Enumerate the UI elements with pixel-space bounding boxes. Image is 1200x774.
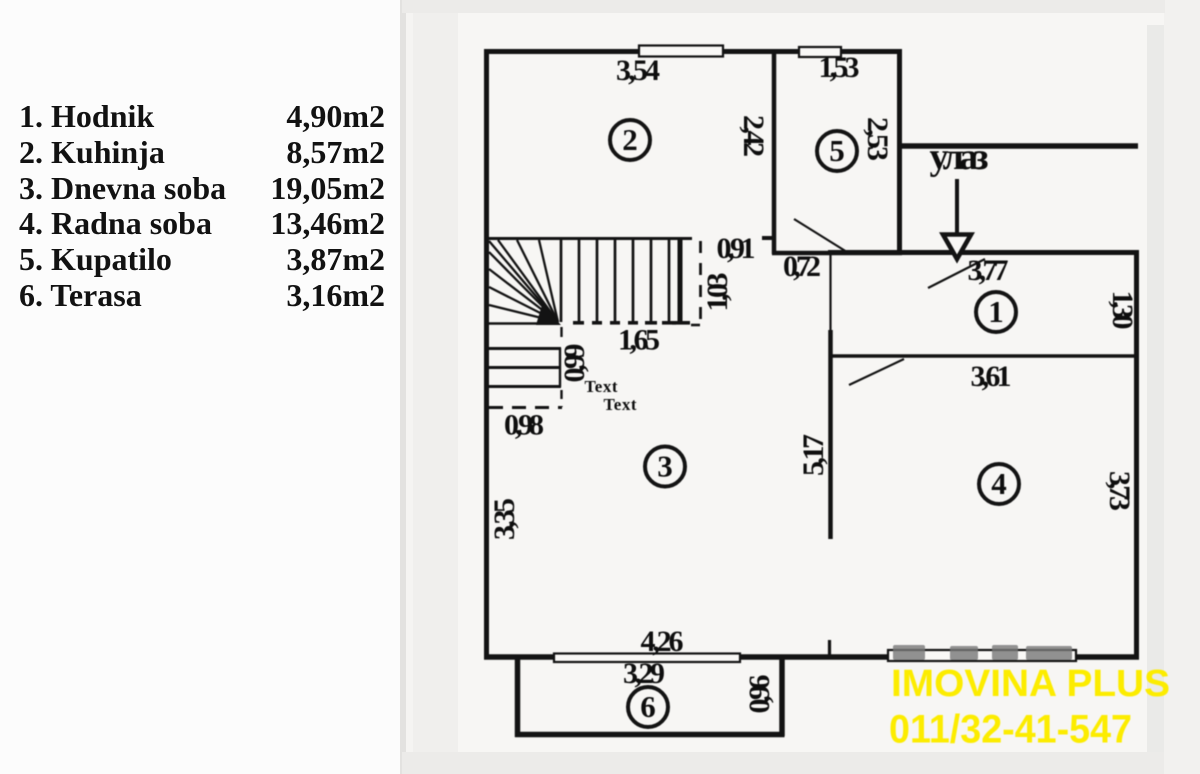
wall: hall/study divider — [832, 354, 1136, 358]
svg-text:1,65: 1,65 — [618, 324, 660, 357]
svg-text:3,61: 3,61 — [971, 360, 1012, 393]
svg-text:3,77: 3,77 — [968, 254, 1009, 287]
svg-text:3,54: 3,54 — [616, 54, 660, 87]
stairs: winder fan — [489, 240, 558, 322]
svg-text:011/32-41-547: 011/32-41-547 — [889, 708, 1132, 752]
wall: living/hall left thick segment — [828, 330, 833, 539]
window W1 on kitchen top wall (3,54) — [639, 46, 723, 57]
window W2 on bathroom top wall (1,53) — [799, 47, 841, 57]
svg-text:1,03: 1,03 — [701, 273, 734, 312]
wall: tick left of bathroom wall — [762, 236, 772, 240]
legend list — [19, 99, 385, 314]
entrance arrow stem — [955, 179, 959, 235]
door swing: hall entrance — [928, 259, 985, 288]
svg-text:4: 4 — [991, 466, 1007, 501]
svg-text:0,96: 0,96 — [743, 675, 776, 714]
svg-text:2,42: 2,42 — [737, 115, 770, 157]
stairs: tread foot ticks — [573, 321, 690, 325]
door swing: study door — [849, 359, 904, 385]
stairs: upper flight treads — [561, 240, 669, 322]
wall: outer left — [484, 49, 489, 659]
svg-text:1,53: 1,53 — [819, 51, 860, 84]
wall: hall top (room 1) — [828, 250, 1139, 255]
stairs: last thick tread — [678, 240, 683, 322]
room number 5 — [817, 131, 857, 171]
room number 4 — [979, 464, 1019, 504]
svg-text:3,29: 3,29 — [623, 657, 665, 690]
wall: terrace right — [779, 657, 785, 736]
wall: hall left thin segment — [829, 253, 831, 332]
wall: bathroom bottom (room 5) — [772, 251, 902, 256]
svg-text:0,91: 0,91 — [717, 232, 756, 265]
svg-text:улаз: улаз — [930, 136, 989, 178]
svg-text:3,73: 3,73 — [1103, 471, 1136, 511]
svg-text:1,30: 1,30 — [1106, 291, 1139, 330]
stairs: dashed bottom line (0,98) — [489, 406, 562, 409]
window W3 living room to terrace — [554, 654, 740, 663]
room number 6 — [628, 687, 668, 727]
stairs: dashed landing edge (1,03) — [699, 241, 702, 325]
svg-text:6: 6 — [640, 689, 656, 724]
svg-text:3,35: 3,35 — [488, 498, 521, 540]
svg-text:5,17: 5,17 — [797, 434, 830, 476]
stairs: dash between fan and lower flight — [560, 327, 562, 344]
stairs: fan bottom line — [486, 322, 559, 325]
svg-text:2,53: 2,53 — [861, 117, 894, 161]
svg-text:4,26: 4,26 — [641, 625, 684, 658]
scan background strips — [402, 0, 1200, 774]
stairs: dashed edge below lower flight — [560, 390, 562, 407]
stairs: fan dark hub — [536, 305, 561, 325]
svg-text:3: 3 — [657, 449, 673, 484]
svg-text:5: 5 — [829, 133, 845, 168]
wall: left stub at bottom door — [828, 640, 831, 657]
svg-text:Text: Text — [604, 395, 637, 414]
room number 1 — [976, 292, 1016, 332]
stairs: lower flight treads — [488, 349, 561, 387]
wall: bathroom left (room 5) — [772, 49, 777, 254]
wall: entry corridor line — [899, 143, 1138, 149]
svg-text:Text: Text — [585, 377, 618, 396]
wall: outer right — [1134, 250, 1139, 659]
svg-text:1: 1 — [988, 294, 1004, 329]
window W4 study bottom wall — [888, 650, 1076, 661]
stairs: dashed landing corner — [691, 324, 700, 327]
wall: outer bottom — [484, 654, 1139, 660]
wall: bathroom right (room 5) — [897, 49, 902, 255]
svg-text:2: 2 — [622, 122, 638, 157]
room number 2 — [610, 120, 650, 160]
wall: terrace left — [515, 657, 521, 737]
wall: outer top — [484, 49, 902, 54]
wall: stairs top line — [486, 237, 692, 240]
svg-text:0,72: 0,72 — [783, 250, 821, 283]
gray watermark remnants — [893, 645, 1072, 660]
stairs: lower flight right edge — [559, 348, 561, 387]
svg-text:0,98: 0,98 — [504, 409, 544, 442]
svg-text:IMOVINA PLUS: IMOVINA PLUS — [891, 663, 1170, 705]
entrance arrow head — [943, 235, 971, 260]
door swing: bathroom (0,72) — [794, 219, 847, 252]
room number 3 — [645, 447, 685, 487]
wall: terrace bottom — [515, 732, 785, 738]
